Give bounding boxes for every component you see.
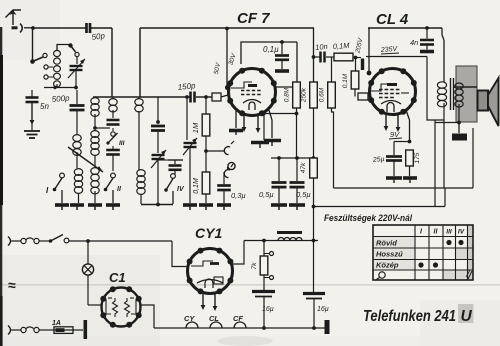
svg-text:10n: 10n bbox=[315, 42, 328, 52]
wire B rail bbox=[244, 240, 318, 242]
wire box bottom bbox=[314, 206, 446, 208]
svg-text:0,1M: 0,1M bbox=[333, 41, 351, 51]
wire grid stopper bbox=[355, 89, 370, 100]
speaker cone bbox=[488, 78, 499, 126]
transformer T1 core bbox=[451, 78, 454, 110]
capacitor 0,5µ a bbox=[259, 158, 287, 203]
tube CL4 pin right bbox=[396, 114, 401, 132]
ground bar det trimmer bbox=[183, 205, 197, 210]
ground bar L5 bbox=[88, 205, 102, 210]
capacitor 16µ b bbox=[303, 241, 329, 329]
capacitor 16µ a bbox=[252, 292, 275, 329]
capacitor 0,1µ bbox=[263, 42, 289, 69]
label 235V bbox=[380, 46, 399, 54]
resistor 0,1M det bbox=[193, 158, 210, 194]
wire screen loop bbox=[241, 42, 297, 64]
tube CF7 cathode pin left bbox=[242, 114, 247, 132]
tube CY1 pin left bbox=[201, 292, 206, 310]
svg-text:0,5µ: 0,5µ bbox=[259, 190, 274, 199]
svg-text:CL 4: CL 4 bbox=[376, 11, 409, 28]
tube CY1 label bbox=[195, 225, 222, 241]
wire CF7 plate bbox=[276, 86, 298, 88]
chassis heater end bbox=[325, 320, 330, 334]
wire drop x140 bbox=[139, 28, 141, 97]
ground bar 0,3µ bbox=[217, 205, 231, 210]
antenna bbox=[6, 10, 22, 25]
wire CY1 right bbox=[233, 241, 245, 265]
wire C1 right pin bbox=[141, 305, 154, 328]
resistor 0,8M bbox=[284, 82, 301, 108]
chassis bar 4n bbox=[420, 50, 434, 54]
wire grid leak drop bbox=[355, 58, 357, 72]
coil L3 bbox=[91, 97, 99, 128]
wire 0,8M bottom drop bbox=[296, 114, 298, 159]
node 150p left bbox=[185, 95, 189, 99]
antenna plug connector bbox=[12, 24, 34, 33]
transformer T1 primary bbox=[437, 82, 446, 188]
resistor 175 bbox=[406, 150, 421, 176]
capacitor 0,5µ b bbox=[290, 158, 311, 203]
resistor 0,1M coupling bbox=[326, 53, 353, 61]
wire 0,6M top bbox=[331, 57, 333, 82]
svg-text:0,1M: 0,1M bbox=[193, 178, 200, 194]
wire 250k bottom bbox=[313, 108, 315, 158]
wire CL4 cathode bbox=[406, 110, 411, 143]
tube CL4 label bbox=[376, 11, 409, 28]
wire tuning rail y97 bbox=[93, 96, 212, 98]
wire plate chain bbox=[296, 42, 298, 82]
svg-text:4n: 4n bbox=[410, 38, 418, 47]
resistor 1M bbox=[191, 97, 210, 136]
chassis bar 0,1µ bbox=[275, 69, 289, 73]
Telefunken title bbox=[363, 304, 474, 325]
resistor 0,6M bbox=[319, 82, 336, 108]
coil L2 oscillator b bbox=[74, 169, 82, 203]
switch II bbox=[104, 173, 122, 203]
mains plug bottom bbox=[8, 326, 54, 335]
svg-text:0,1µ: 0,1µ bbox=[263, 45, 279, 54]
svg-text:≈: ≈ bbox=[8, 277, 16, 293]
node antenna junction bbox=[31, 26, 35, 30]
wire cathode row CL4 bbox=[394, 142, 410, 156]
switch IV bbox=[164, 174, 185, 204]
chassis bar CF7 left bbox=[229, 110, 243, 135]
wire padder drop bbox=[156, 97, 160, 124]
label 50V bbox=[213, 62, 222, 75]
wire det node bbox=[206, 150, 225, 152]
svg-text:IV: IV bbox=[458, 229, 465, 236]
coil L5 bbox=[91, 168, 99, 203]
wire osc bottom bbox=[141, 203, 173, 207]
tube CF7 label bbox=[237, 10, 270, 27]
svg-text:0,5µ: 0,5µ bbox=[296, 190, 311, 199]
wire avc drop bbox=[312, 28, 316, 82]
svg-text:0,3µ: 0,3µ bbox=[231, 191, 246, 200]
fuse 1A bbox=[52, 320, 83, 333]
wire 500p to coil bbox=[76, 110, 78, 134]
capacitor 10n bbox=[314, 42, 329, 63]
svg-text:9V: 9V bbox=[390, 130, 400, 139]
node coil junction bbox=[53, 86, 78, 90]
tube CY1 pin right bbox=[213, 292, 218, 311]
wire secondary row bbox=[435, 122, 459, 124]
label 30V bbox=[227, 52, 237, 66]
dial lamp bbox=[82, 241, 93, 305]
wire heater line bbox=[154, 327, 326, 329]
svg-text:Hosszú: Hosszú bbox=[376, 250, 403, 259]
voltage table bbox=[373, 225, 473, 280]
wire 1M bottom bbox=[204, 136, 208, 158]
tube CY1 inner bbox=[191, 261, 223, 288]
trimmer capacitor osc bbox=[151, 131, 166, 204]
svg-text:7k: 7k bbox=[251, 262, 258, 270]
wire B+ drop bbox=[442, 28, 444, 82]
svg-text:CF 7: CF 7 bbox=[237, 10, 270, 27]
ground antenna bbox=[24, 131, 40, 138]
wire output drop bbox=[434, 120, 436, 207]
plug pin bar bbox=[84, 320, 88, 339]
wire feedback drop bbox=[427, 57, 444, 121]
switch I bbox=[46, 173, 64, 203]
wire CY1 left bbox=[172, 241, 188, 267]
capacitor 100p grid bbox=[356, 58, 363, 71]
tube CF7 cathode pin right bbox=[256, 115, 261, 133]
node 0,1µ tap bbox=[280, 40, 284, 44]
label mains ac bbox=[8, 277, 16, 293]
transformer T1 secondary bbox=[455, 83, 463, 124]
tube CY1 bbox=[187, 248, 234, 295]
tube CF7 inner bbox=[231, 82, 261, 110]
resistor 0,1M grid leak bbox=[342, 71, 359, 89]
svg-text:C1: C1 bbox=[109, 270, 126, 285]
tube CL4 inner bbox=[371, 84, 409, 112]
ground bar switch I bbox=[55, 205, 69, 210]
node filter out bbox=[312, 239, 316, 243]
wire af row158 bbox=[271, 156, 315, 160]
svg-text:25µ: 25µ bbox=[372, 156, 385, 164]
label 205V bbox=[354, 37, 364, 55]
resistor bleeder bbox=[251, 241, 274, 291]
capacitor 0,3µ bbox=[217, 172, 246, 203]
capacitor 4n bbox=[410, 28, 434, 50]
node L3 tap bbox=[93, 126, 110, 130]
svg-text:50p: 50p bbox=[91, 31, 106, 42]
coil L6 bbox=[109, 97, 117, 112]
label 0,1M coupling bbox=[333, 41, 351, 51]
speaker magnet bbox=[478, 91, 489, 111]
svg-text:175: 175 bbox=[414, 152, 421, 163]
wire antenna to 50p bbox=[33, 27, 87, 29]
switch contact III bbox=[106, 128, 124, 147]
switch contact det1 bbox=[224, 141, 234, 155]
capacitor 5n bbox=[26, 90, 50, 130]
ground bar 0,5µ b bbox=[289, 205, 305, 210]
wire top rail A bbox=[140, 27, 314, 29]
speaker frame bbox=[456, 66, 477, 122]
ground bar L2 bbox=[70, 205, 84, 210]
capacitor 500p bbox=[51, 90, 84, 110]
tube CL4 pin left bbox=[384, 113, 389, 131]
wire cathode row bbox=[264, 108, 298, 115]
switch antenna arm bbox=[30, 53, 53, 79]
heater winding CL bbox=[209, 314, 222, 328]
capacitor 150p bbox=[177, 81, 196, 102]
wire feedback top bbox=[366, 56, 427, 58]
filter choke bbox=[277, 233, 302, 241]
wire antenna drop bbox=[32, 28, 34, 60]
capacitor 25µ bbox=[372, 156, 402, 176]
heater winding CF bbox=[233, 314, 246, 328]
svg-text:III: III bbox=[119, 140, 125, 147]
switch antenna top bbox=[68, 43, 79, 56]
wire CF7 right pin bbox=[268, 107, 272, 138]
table title bbox=[324, 213, 412, 224]
svg-text:47k: 47k bbox=[300, 162, 307, 173]
coil L8 bbox=[137, 170, 145, 204]
svg-text:0,1M: 0,1M bbox=[342, 73, 349, 88]
svg-text:250k: 250k bbox=[301, 87, 308, 103]
svg-text:1M: 1M bbox=[191, 122, 200, 133]
coil L1 antenna bbox=[44, 45, 76, 88]
ground bar sw III bbox=[106, 205, 120, 210]
wire drop x112 bbox=[111, 28, 113, 97]
node filter in bbox=[262, 239, 266, 243]
resistor 47k bbox=[300, 158, 317, 241]
capacitor band pad1 bbox=[107, 110, 120, 125]
wire CL4 plate drop bbox=[367, 28, 372, 75]
jack circle bbox=[227, 162, 235, 169]
chassis bar cathode bbox=[251, 143, 269, 149]
ground bar 0,5µ a bbox=[271, 205, 287, 210]
svg-text:CY1: CY1 bbox=[195, 225, 222, 241]
node 1M top bbox=[204, 95, 208, 99]
chassis bar 175 bbox=[403, 178, 417, 183]
wire box left bbox=[332, 108, 334, 188]
svg-text:0,8M: 0,8M bbox=[284, 87, 291, 102]
tube CF7 bbox=[227, 68, 277, 117]
wire C1 left pin bbox=[88, 304, 101, 306]
resistor 250k bbox=[301, 82, 318, 108]
svg-text:III: III bbox=[446, 229, 452, 236]
wire CF7 grid drop bbox=[225, 28, 230, 90]
node heater a bbox=[262, 326, 266, 330]
chassis bar 25µ bbox=[386, 178, 402, 183]
svg-text:Telefunken 241: Telefunken 241 bbox=[363, 308, 456, 325]
node heater b bbox=[312, 326, 316, 330]
svg-text:0,6M: 0,6M bbox=[319, 87, 326, 102]
capacitor osc fixed bbox=[158, 160, 183, 174]
tube C1 label bbox=[109, 270, 126, 285]
coil L2 oscillator a bbox=[73, 135, 81, 168]
wire cathode drop bbox=[262, 112, 265, 140]
tube C1 inner bbox=[106, 298, 136, 317]
wire 50p to corner bbox=[90, 27, 112, 29]
switch contact det2 bbox=[224, 164, 233, 178]
svg-text:5n: 5n bbox=[40, 102, 49, 111]
switch lever long bbox=[68, 147, 103, 172]
capacitor 50p bbox=[87, 23, 107, 42]
node 4n tap bbox=[425, 26, 429, 30]
svg-text:16µ: 16µ bbox=[317, 306, 329, 313]
trimmer capacitor det bbox=[183, 97, 197, 203]
svg-text:500p: 500p bbox=[51, 93, 70, 104]
svg-text:16µ: 16µ bbox=[262, 306, 274, 313]
chassis bar CF7 right bbox=[264, 140, 281, 146]
svg-text:1A: 1A bbox=[52, 320, 61, 327]
capacitor band pad2 bbox=[106, 146, 120, 171]
capacitor padder bbox=[151, 126, 165, 131]
wire mains to CY1 bbox=[88, 240, 172, 242]
svg-text:Feszültségek 220V-nál: Feszültségek 220V-nál bbox=[324, 213, 412, 224]
tube C1 bbox=[100, 286, 141, 327]
node CF7 plate tap bbox=[225, 27, 229, 31]
wire secondary return bbox=[334, 128, 474, 188]
mains switch bbox=[49, 235, 88, 243]
label 9V bbox=[389, 130, 402, 139]
coil L4 bbox=[91, 131, 99, 168]
speaker terminal bar bbox=[452, 123, 467, 141]
coil L7 bbox=[135, 97, 143, 170]
left edge black strip bbox=[0, 27, 3, 346]
wire speaker top bbox=[454, 86, 477, 88]
scan artifact line bbox=[0, 284, 500, 285]
svg-text:U: U bbox=[461, 308, 473, 325]
grid cap connector CF7 bbox=[212, 93, 228, 101]
heater winding CY bbox=[184, 314, 198, 328]
mains plug top bbox=[8, 237, 49, 246]
node coupling bbox=[354, 56, 358, 60]
trimmer capacitor antenna bbox=[68, 57, 85, 88]
ground bar 0,1M det bbox=[199, 205, 213, 210]
tube CL4 bbox=[368, 68, 417, 115]
wire box right bbox=[444, 188, 446, 207]
svg-text:150p: 150p bbox=[177, 81, 196, 92]
wire 0,1M det bottom bbox=[205, 194, 207, 203]
wire top rail B bbox=[368, 27, 442, 29]
svg-text:Közép: Közép bbox=[376, 261, 399, 270]
node lamp tap bbox=[86, 239, 90, 243]
svg-text:Rövid: Rövid bbox=[376, 239, 397, 248]
